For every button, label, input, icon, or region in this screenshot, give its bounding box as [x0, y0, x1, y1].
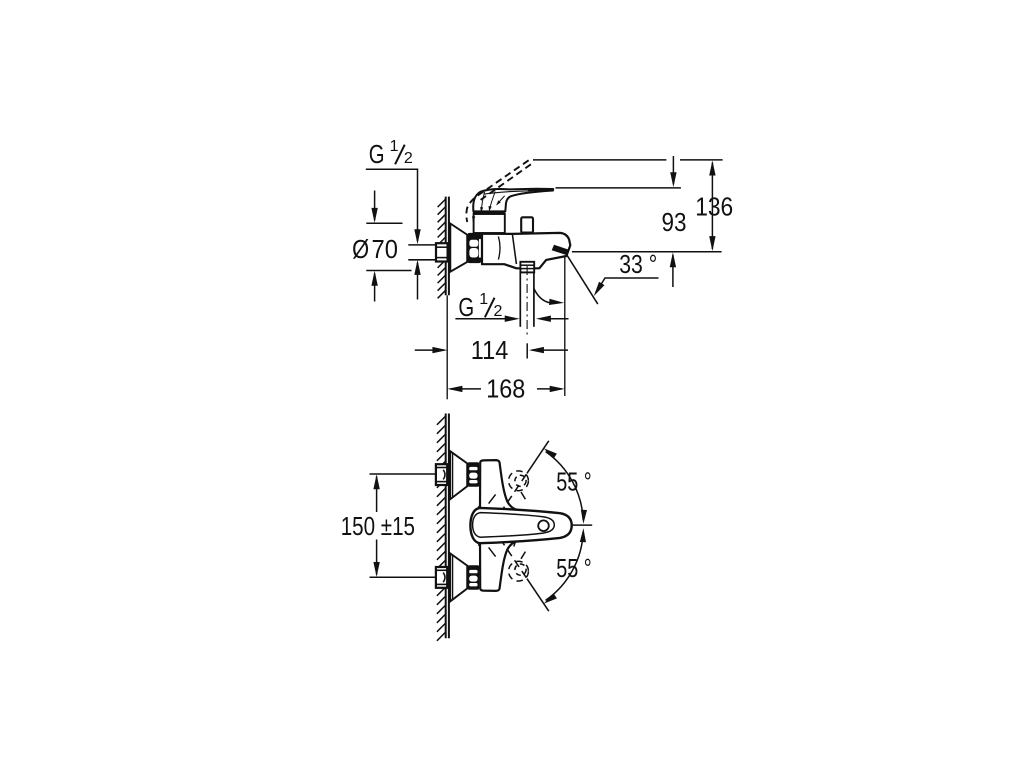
dimension 150±15 line with arrows: [376, 477, 378, 575]
escutcheon cone (side view): [450, 224, 467, 272]
handle blade dark tip (side view): [528, 189, 553, 191]
reference line at lever horizontal top: [556, 187, 681, 189]
mixer body with spout (side view): [482, 233, 570, 268]
upper escutcheon cone (front view): [450, 451, 467, 499]
centerline tick right of handle (front view): [572, 524, 592, 526]
lever handle, horizontal position (side view): [473, 189, 553, 212]
body lower lobe (front view): [480, 541, 518, 591]
55-deg upper arc with arrows: [546, 452, 584, 521]
dimension Ø70 extension lines: [366, 223, 411, 270]
wall (front view): [446, 414, 449, 639]
lower connection hole, dashed circles (front view): [509, 561, 529, 581]
hose centerline dash-dot (side view): [526, 266, 528, 337]
hose connection nut (side view): [520, 262, 534, 273]
dimension 168 line: [450, 388, 481, 390]
label G 1/2 top: [369, 138, 413, 169]
svg-text:136: 136: [695, 194, 733, 222]
svg-text:168: 168: [486, 375, 525, 403]
flow arc with arrow at spout tip line: [534, 289, 550, 303]
svg-text:70: 70: [372, 236, 398, 264]
wall (side view): [446, 197, 449, 296]
svg-text:G: G: [369, 141, 385, 169]
upper union nut, knurled (front view): [468, 462, 480, 487]
Ø70 lower arrow: [374, 274, 376, 302]
diverter knob on body top (side view): [521, 217, 533, 232]
dimension 93 lower arrow: [672, 255, 674, 287]
G 1/2 hose opposing left arrow: [549, 318, 569, 320]
lever handle (front view): [470, 508, 571, 543]
top reference line, raised lever height: [533, 159, 723, 161]
svg-text:1: 1: [479, 291, 488, 308]
dimension 150±15 extension lines: [370, 474, 436, 577]
dashed-arc end arrow (side view): [472, 216, 475, 222]
label G 1/2 bottom (hose thread): [458, 291, 502, 322]
svg-text:114: 114: [471, 337, 509, 365]
33-deg spout axis line: [566, 253, 598, 304]
svg-text:55 °: 55 °: [556, 469, 592, 497]
supply hex nut behind wall (side view): [436, 243, 448, 261]
168 right extension line (spout tip): [564, 256, 566, 397]
55-deg axis upper-right: dashed through hole, solid beyond: [478, 473, 527, 545]
dimension 114 line: [415, 349, 445, 351]
cartridge housing column (side view): [474, 214, 505, 233]
lower union nut, knurled (front view): [468, 565, 480, 590]
svg-text:150 ±15: 150 ±15: [341, 513, 415, 541]
upper supply hex nut (front view): [436, 464, 447, 485]
body internal line at spout joint (side view): [512, 234, 516, 264]
handle swing arcs with small arrows (side view): [481, 192, 504, 211]
wall hatching (front view): [437, 416, 446, 641]
G 1/2 top leader line: [366, 169, 418, 241]
body upper lobe (front view): [480, 460, 518, 510]
wall-face extension line (for 114/168 dims): [446, 295, 448, 399]
lower supply hex nut (front view): [436, 567, 447, 588]
114 right extension line (hose axis): [526, 343, 528, 358]
svg-text:55 °: 55 °: [556, 555, 592, 583]
reference line at spout outlet level: [572, 251, 722, 253]
supply pipe stub behind wall (side view): [408, 245, 436, 260]
svg-text:1: 1: [390, 138, 399, 155]
handle inner face contour (front view): [473, 513, 555, 538]
lower escutcheon cone (front view): [450, 553, 467, 601]
svg-text:2: 2: [494, 303, 503, 320]
svg-text:33 °: 33 °: [619, 251, 657, 279]
svg-text:2: 2: [404, 150, 413, 167]
handle cap dark bar (side view): [473, 211, 505, 214]
shower hose outlet pipe (side view): [520, 272, 534, 326]
union nut, knurled (side view): [468, 233, 481, 263]
handle blade inner highlight line (side view): [484, 190, 548, 194]
dimension 136 line with arrows: [711, 163, 713, 250]
handle screw hole circle (front view): [538, 520, 549, 531]
lever handle raised position, dashed (side view): [466, 160, 531, 222]
dimension 93 upper arrow: [672, 156, 674, 184]
svg-text:Ø: Ø: [352, 236, 369, 264]
G 1/2 lower opposing arrow: [417, 263, 419, 300]
upper connection hole, dashed circles (front view): [509, 471, 529, 491]
Ø70 upper arrow: [374, 191, 376, 221]
spout outlet face, 33-deg cut (side view): [552, 245, 569, 255]
55-deg lower arc with arrows: [546, 532, 584, 601]
cartridge cylinder arc inside body (side view): [498, 236, 500, 259]
hidden channel extra dashes (front view): [489, 492, 526, 559]
svg-text:93: 93: [662, 209, 687, 237]
55-deg axis lower-right: dashed through hole, solid beyond: [478, 506, 527, 578]
wall hatching (side view): [438, 199, 446, 298]
G 1/2 hose leader with right arrow: [455, 318, 507, 320]
